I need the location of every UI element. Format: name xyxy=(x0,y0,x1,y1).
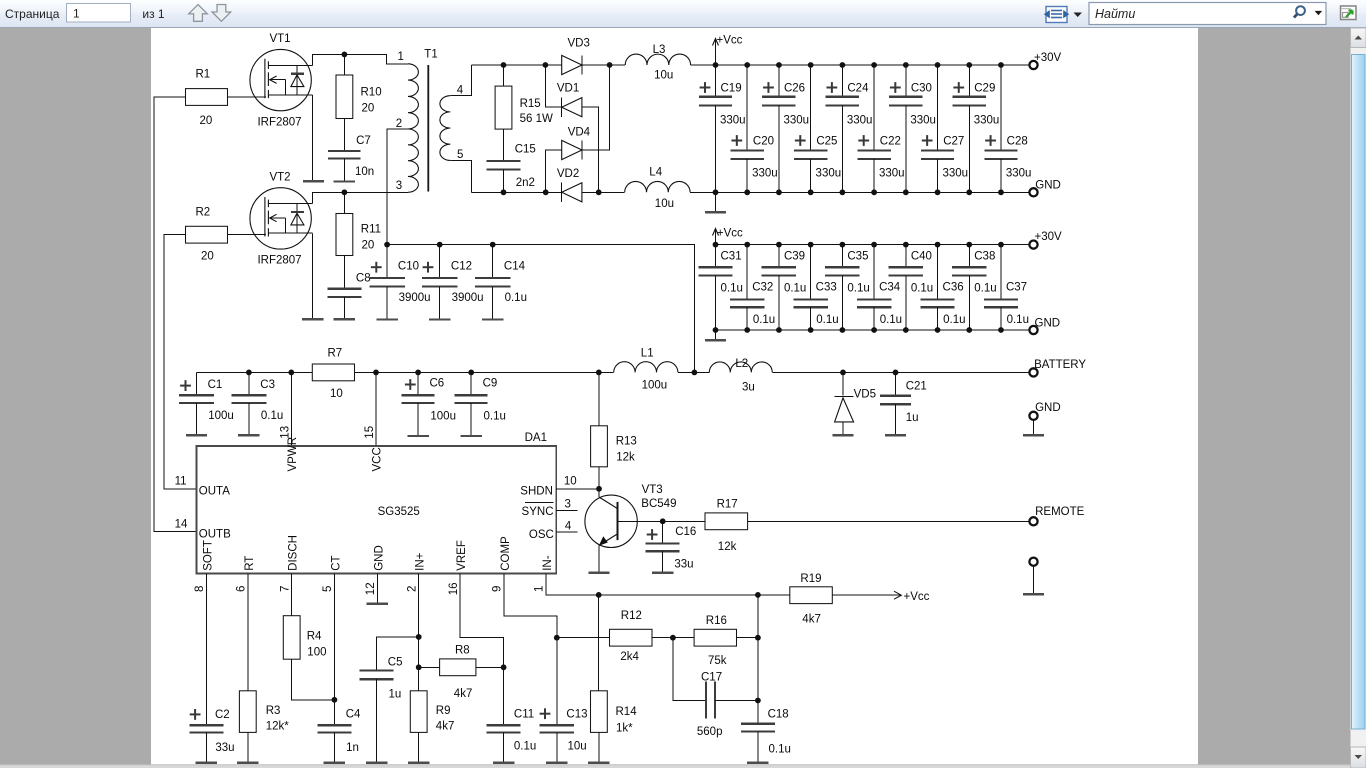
junction bank2 top col2 xyxy=(744,242,750,248)
capacitor C34 xyxy=(873,245,875,300)
transistor VT1 xyxy=(250,49,311,110)
svg-text:VT2: VT2 xyxy=(269,172,290,184)
junction VD3 cathode node xyxy=(607,62,613,68)
wire secondary pin5 to bottom rail xyxy=(450,160,471,192)
svg-text:20: 20 xyxy=(362,103,375,115)
diode VD1 xyxy=(545,65,561,107)
junction bank1 top col8 xyxy=(935,62,941,68)
ground second bank xyxy=(715,330,717,340)
toolbar up arrow button xyxy=(189,5,208,22)
ground C9 xyxy=(461,435,482,437)
wire VT1 drain to transformer xyxy=(312,54,408,65)
junction C14 top xyxy=(490,242,496,248)
svg-text:C11: C11 xyxy=(514,708,534,720)
ground C1 xyxy=(186,434,207,436)
svg-text:330u: 330u xyxy=(816,168,842,180)
junction bank1 bottom col7 xyxy=(903,189,909,195)
svg-text:из 1: из 1 xyxy=(142,7,165,21)
junction R15 top xyxy=(501,62,507,68)
svg-text:SHDN: SHDN xyxy=(520,486,553,498)
junction R4 CT node xyxy=(332,697,338,703)
transformer T1 primary winding top xyxy=(408,64,418,129)
scrollbar up button xyxy=(1351,28,1366,48)
svg-text:C20: C20 xyxy=(753,136,774,148)
capacitor C29 xyxy=(968,65,970,97)
svg-text:100u: 100u xyxy=(430,411,456,423)
svg-text:75k: 75k xyxy=(708,655,727,667)
svg-text:12k: 12k xyxy=(616,451,635,463)
svg-text:IRF2807: IRF2807 xyxy=(257,117,301,129)
svg-text:330u: 330u xyxy=(974,115,1000,127)
ground C8 xyxy=(334,318,355,320)
junction bank1 top col5 xyxy=(839,62,845,68)
svg-text:R19: R19 xyxy=(800,573,821,585)
resistor R19 xyxy=(758,594,790,596)
capacitor C28 xyxy=(1000,65,1002,151)
transistor VT2 xyxy=(250,188,311,249)
junction pin15 node xyxy=(373,370,379,376)
svg-text:R14: R14 xyxy=(616,706,638,718)
junction C15 bottom xyxy=(501,189,507,195)
svg-text:RT: RT xyxy=(244,556,256,571)
ground battery GND terminal xyxy=(1023,434,1044,436)
svg-text:VT3: VT3 xyxy=(642,484,663,496)
ground C14 xyxy=(482,318,503,320)
ground R14 xyxy=(588,762,609,764)
svg-text:C19: C19 xyxy=(721,83,742,95)
svg-text:+30V: +30V xyxy=(1034,52,1062,64)
wire VT2 drain to transformer pin3 xyxy=(312,192,408,203)
wire OSC stub xyxy=(556,531,577,533)
diode VD5 xyxy=(842,372,844,395)
svg-text:L3: L3 xyxy=(653,44,666,56)
svg-text:560p: 560p xyxy=(697,726,723,738)
wire C5 branch xyxy=(377,637,419,671)
svg-text:IN-: IN- xyxy=(542,555,554,571)
wire SHDN stub xyxy=(556,488,599,490)
svg-text:2k4: 2k4 xyxy=(620,651,639,663)
ground unlabeled terminal xyxy=(1023,593,1044,595)
junction bank2 top col4 xyxy=(808,242,814,248)
junction bank1 top col2 xyxy=(744,62,750,68)
svg-text:SOFT: SOFT xyxy=(202,540,214,571)
svg-text:L2: L2 xyxy=(735,358,748,370)
ground C21 xyxy=(885,434,906,436)
diode VD4 xyxy=(546,150,562,192)
wire RT stub xyxy=(247,574,249,691)
svg-text:6: 6 xyxy=(236,586,248,592)
wire VD3 to L3 node xyxy=(582,64,625,66)
svg-text:20: 20 xyxy=(362,240,375,252)
svg-text:C5: C5 xyxy=(388,657,403,669)
svg-text:R9: R9 xyxy=(436,705,451,717)
capacitor C36 xyxy=(937,245,939,300)
ground pin12 xyxy=(367,603,388,605)
svg-text:T1: T1 xyxy=(424,49,437,61)
wire R2 to VT2 gate xyxy=(228,234,266,236)
resistor R2 xyxy=(186,226,228,243)
svg-text:4k7: 4k7 xyxy=(454,688,473,700)
svg-text:33u: 33u xyxy=(215,742,234,754)
ground C13 xyxy=(546,762,567,764)
wire VD1 anode down xyxy=(582,107,599,192)
junction VT2 drain node xyxy=(342,189,348,195)
terminal +30V top xyxy=(1029,61,1037,69)
junction VD1 branch top xyxy=(543,62,549,68)
svg-text:20: 20 xyxy=(200,115,213,127)
junction R12 R16 node xyxy=(670,635,676,641)
junction bank1 bottom col4 xyxy=(808,189,814,195)
capacitor C21 xyxy=(895,372,897,395)
inductor L4 xyxy=(625,181,690,192)
svg-text:REMOTE: REMOTE xyxy=(1035,506,1085,518)
svg-text:1: 1 xyxy=(534,586,546,592)
junction bank1 bottom col2 xyxy=(744,189,750,195)
svg-text:C34: C34 xyxy=(879,281,901,293)
ground C10 xyxy=(376,318,397,320)
wire CT stub xyxy=(333,574,335,726)
capacitor C31 xyxy=(715,245,717,268)
svg-text:C8: C8 xyxy=(356,273,371,285)
junction bank1 top col10 xyxy=(998,62,1004,68)
svg-text:C27: C27 xyxy=(943,136,964,148)
wire R14 branch xyxy=(598,595,600,691)
svg-text:C15: C15 xyxy=(515,144,536,156)
resistor R10 xyxy=(343,54,345,75)
svg-text:R3: R3 xyxy=(266,705,281,717)
junction VD4 anode bottom xyxy=(543,189,549,195)
terminal GND battery xyxy=(1029,412,1037,420)
junction R8 left node xyxy=(416,664,422,670)
ground VT3 emitter xyxy=(588,572,609,574)
junction L1 L2 node xyxy=(692,370,698,376)
svg-text:C37: C37 xyxy=(1006,281,1027,293)
wire R17 to REMOTE xyxy=(748,520,1030,522)
toolbar search box xyxy=(1089,3,1326,25)
svg-text:IRF2807: IRF2807 xyxy=(257,255,301,267)
svg-text:11: 11 xyxy=(175,475,187,487)
resistor R17 xyxy=(705,513,748,530)
junction R19 node xyxy=(755,592,761,598)
svg-text:330u: 330u xyxy=(1006,168,1032,180)
ground C12 xyxy=(429,318,450,320)
svg-text:8: 8 xyxy=(194,586,206,592)
capacitor C20 xyxy=(746,65,748,151)
resistor R16 xyxy=(694,629,736,646)
svg-text:R15: R15 xyxy=(520,98,541,110)
junction bank2 bottom col2 xyxy=(744,327,750,333)
svg-text:C25: C25 xyxy=(816,136,837,148)
wire pin13 stub xyxy=(290,372,292,446)
svg-text:R16: R16 xyxy=(706,615,727,627)
capacitor C17 xyxy=(673,638,706,701)
wire C8 to ground xyxy=(343,297,345,320)
wire second bank bottom bus xyxy=(716,329,1030,331)
svg-text:C24: C24 xyxy=(847,83,869,95)
toolbar dropdown arrow xyxy=(1074,13,1083,18)
wire IN- path xyxy=(546,574,758,595)
svg-text:C21: C21 xyxy=(906,381,927,393)
svg-text:0.1u: 0.1u xyxy=(505,292,527,304)
wire L4 to GND rail xyxy=(690,191,1029,193)
svg-text:15: 15 xyxy=(364,426,376,439)
svg-text:C36: C36 xyxy=(943,281,964,293)
svg-text:12k*: 12k* xyxy=(266,721,290,733)
wire VT2 source to ground xyxy=(311,233,313,319)
svg-text:BC549: BC549 xyxy=(641,498,676,510)
scrollbar thumb xyxy=(1352,55,1366,730)
svg-text:C31: C31 xyxy=(721,250,742,262)
resistor R11 xyxy=(343,192,345,213)
capacitor C12 xyxy=(439,245,441,278)
svg-text:12k: 12k xyxy=(718,541,737,553)
junction bank1 bottom col10 xyxy=(998,189,1004,195)
svg-text:C29: C29 xyxy=(974,83,995,95)
capacitor C3 xyxy=(248,372,250,395)
junction bank2 bottom col3 xyxy=(776,327,782,333)
ground C2 xyxy=(196,762,217,764)
svg-text:OSC: OSC xyxy=(529,529,554,541)
capacitor C4 xyxy=(317,724,351,726)
svg-text:VD2: VD2 xyxy=(557,168,579,180)
svg-text:2: 2 xyxy=(406,586,418,592)
svg-text:3u: 3u xyxy=(742,382,755,394)
svg-text:0.1u: 0.1u xyxy=(484,411,506,423)
svg-text:12: 12 xyxy=(365,582,377,595)
wire DISCH stub xyxy=(291,574,293,616)
svg-text:0.1u: 0.1u xyxy=(721,282,743,294)
svg-text:0.1u: 0.1u xyxy=(847,282,869,294)
svg-text:100u: 100u xyxy=(642,379,668,391)
svg-text:C3: C3 xyxy=(260,379,275,391)
capacitor C26 xyxy=(778,65,780,97)
resistor R12 xyxy=(557,637,610,639)
wire second bank top bus xyxy=(716,244,1030,246)
svg-text:VT1: VT1 xyxy=(269,33,290,45)
wire VT1 source to ground xyxy=(311,95,313,181)
capacitor C2 xyxy=(189,724,223,726)
svg-text:14: 14 xyxy=(175,519,188,531)
wire VT3 base xyxy=(618,520,706,522)
junction bank2 top col6 xyxy=(871,242,877,248)
svg-text:0.1u: 0.1u xyxy=(784,282,806,294)
svg-text:+Vcc: +Vcc xyxy=(717,35,743,47)
junction bank2 top col3 xyxy=(776,242,782,248)
inductor L3 xyxy=(625,54,690,65)
svg-text:330u: 330u xyxy=(942,168,968,180)
svg-text:0.1u: 0.1u xyxy=(514,741,536,753)
svg-text:GND: GND xyxy=(1035,180,1061,192)
svg-text:3: 3 xyxy=(565,498,571,510)
svg-text:C18: C18 xyxy=(768,708,789,720)
svg-text:10u: 10u xyxy=(654,69,673,81)
svg-text:10u: 10u xyxy=(655,198,674,210)
capacitor C25 xyxy=(810,65,812,151)
svg-text:+30V: +30V xyxy=(1035,231,1063,243)
wire IN+ stub xyxy=(418,574,420,691)
toolbar search dropdown arrow xyxy=(1315,11,1323,15)
wire VD4 cathode to top node xyxy=(582,65,610,150)
junction bank1 bottom col3 xyxy=(776,189,782,195)
ground C16 xyxy=(652,572,673,574)
svg-text:SYNC: SYNC xyxy=(522,506,554,518)
resistor R1 xyxy=(186,89,228,106)
svg-text:R1: R1 xyxy=(196,69,211,81)
svg-text:OUTA: OUTA xyxy=(199,485,230,497)
ground C4 xyxy=(324,762,345,764)
junction C21 top xyxy=(893,370,899,376)
capacitor C6 xyxy=(417,372,419,395)
junction VD5 top xyxy=(840,370,846,376)
svg-text:VD4: VD4 xyxy=(568,127,591,139)
svg-text:330u: 330u xyxy=(910,115,936,127)
junction bank2 bottom col5 xyxy=(839,327,845,333)
capacitor C13 xyxy=(556,638,558,726)
wire feedback vertical xyxy=(757,595,759,724)
transformer T1 core xyxy=(427,65,429,192)
capacitor C8 xyxy=(343,256,345,289)
svg-text:330u: 330u xyxy=(752,168,778,180)
junction bank2 bottom col4 xyxy=(808,327,814,333)
junction pin13 node xyxy=(288,370,294,376)
wire bottom rail left xyxy=(472,191,562,193)
capacitor C14 xyxy=(492,245,494,278)
svg-text:C22: C22 xyxy=(880,136,901,148)
ground R9 xyxy=(408,762,429,764)
svg-text:L1: L1 xyxy=(641,348,654,360)
transformer T1 primary winding bottom xyxy=(408,129,418,192)
svg-text:330u: 330u xyxy=(847,115,873,127)
toolbar search magnifier icon xyxy=(1296,6,1305,15)
junction bank1 bottom col5 xyxy=(839,189,845,195)
capacitor C32 xyxy=(746,245,748,300)
wire secondary pin4 to top rail xyxy=(450,65,471,96)
svg-text:VD1: VD1 xyxy=(557,82,579,94)
svg-text:2: 2 xyxy=(396,118,402,130)
svg-text:5: 5 xyxy=(322,586,334,592)
svg-text:GND: GND xyxy=(1035,402,1061,414)
junction bank1 top col9 xyxy=(966,62,972,68)
junction VD1 anode bottom xyxy=(596,189,602,195)
svg-text:330u: 330u xyxy=(879,168,905,180)
power arrow +Vcc second bank xyxy=(715,229,717,245)
svg-text:0.1u: 0.1u xyxy=(974,282,996,294)
svg-text:+Vcc: +Vcc xyxy=(904,591,930,603)
ground VD5 xyxy=(832,434,853,436)
svg-text:C16: C16 xyxy=(675,526,696,538)
wire battery rail xyxy=(197,371,313,373)
svg-text:0.1u: 0.1u xyxy=(769,744,791,756)
svg-text:VD3: VD3 xyxy=(568,38,590,50)
svg-text:7: 7 xyxy=(279,586,291,592)
capacitor C5 xyxy=(360,669,394,671)
junction C10 top xyxy=(384,242,390,248)
junction bank1 top col4 xyxy=(808,62,814,68)
capacitor C33 xyxy=(810,245,812,300)
toolbar fit-width icon xyxy=(1046,7,1067,23)
ground C3 xyxy=(238,434,259,436)
wire GND pin stub xyxy=(376,574,378,604)
svg-text:33u: 33u xyxy=(674,558,693,570)
ground C11 xyxy=(493,762,514,764)
white document page xyxy=(151,28,1198,768)
junction bank1 bottom col8 xyxy=(935,189,941,195)
svg-text:0.1u: 0.1u xyxy=(880,314,902,326)
scrollbar down button xyxy=(1351,747,1366,768)
toolbar page input xyxy=(67,4,131,23)
diode VD2 xyxy=(562,183,582,202)
junction bank2 bottom col1 xyxy=(713,327,719,333)
junction bank1 top col1 xyxy=(713,62,719,68)
capacitor C39 xyxy=(778,245,780,268)
wire L3 to +30V rail xyxy=(691,64,1030,66)
svg-text:0.1u: 0.1u xyxy=(911,282,933,294)
wire Vcc bus to L1 node xyxy=(387,245,694,373)
junction C9 top xyxy=(468,370,474,376)
svg-text:0.1u: 0.1u xyxy=(943,314,965,326)
junction bank2 top col8 xyxy=(935,242,941,248)
junction bank2 bottom col10 xyxy=(998,327,1004,333)
wire VD2 to L4 xyxy=(582,191,625,193)
junction bank1 top col3 xyxy=(776,62,782,68)
resistor R15 xyxy=(503,65,505,86)
svg-text:C30: C30 xyxy=(911,83,932,95)
svg-text:3: 3 xyxy=(396,180,402,192)
svg-text:R10: R10 xyxy=(361,87,382,99)
junction bank1 top col6 xyxy=(871,62,877,68)
capacitor C10 xyxy=(386,245,388,278)
junction C17 right node xyxy=(755,698,761,704)
ground C6 xyxy=(407,435,428,437)
svg-text:C26: C26 xyxy=(784,83,805,95)
svg-text:C2: C2 xyxy=(215,709,230,721)
resistor R3 xyxy=(239,691,256,733)
svg-text:R2: R2 xyxy=(196,207,211,219)
capacitor C15 xyxy=(503,129,505,161)
svg-text:R17: R17 xyxy=(717,499,738,511)
inductor L2 xyxy=(709,362,772,373)
svg-text:5: 5 xyxy=(457,149,463,161)
junction bank2 top col1 xyxy=(713,242,719,248)
vertical scrollbar track xyxy=(1351,28,1366,768)
svg-text:1: 1 xyxy=(398,51,404,63)
svg-text:0.1u: 0.1u xyxy=(753,314,775,326)
svg-text:4: 4 xyxy=(565,520,572,532)
wire COMP path xyxy=(504,574,557,638)
svg-text:R8: R8 xyxy=(455,645,470,657)
junction C3 top xyxy=(246,370,252,376)
svg-text:COMP: COMP xyxy=(500,536,512,571)
svg-text:VCC: VCC xyxy=(372,447,384,471)
junction C16 top xyxy=(660,518,666,524)
svg-text:C28: C28 xyxy=(1007,136,1028,148)
svg-text:C35: C35 xyxy=(847,250,868,262)
junction bank1 bottom col1 xyxy=(713,189,719,195)
svg-text:9: 9 xyxy=(492,586,504,592)
capacitor C9 xyxy=(470,372,472,395)
svg-text:C10: C10 xyxy=(398,261,419,273)
svg-text:VPWR: VPWR xyxy=(287,437,299,472)
svg-text:10: 10 xyxy=(330,388,343,400)
svg-text:C40: C40 xyxy=(911,250,932,262)
junction C5 branch xyxy=(416,634,422,640)
svg-text:R7: R7 xyxy=(328,348,343,360)
svg-text:C7: C7 xyxy=(356,135,371,147)
svg-text:C4: C4 xyxy=(346,709,361,721)
transistor VT3 xyxy=(585,495,637,547)
svg-text:1u: 1u xyxy=(906,412,919,424)
junction R8 right node xyxy=(501,664,507,670)
